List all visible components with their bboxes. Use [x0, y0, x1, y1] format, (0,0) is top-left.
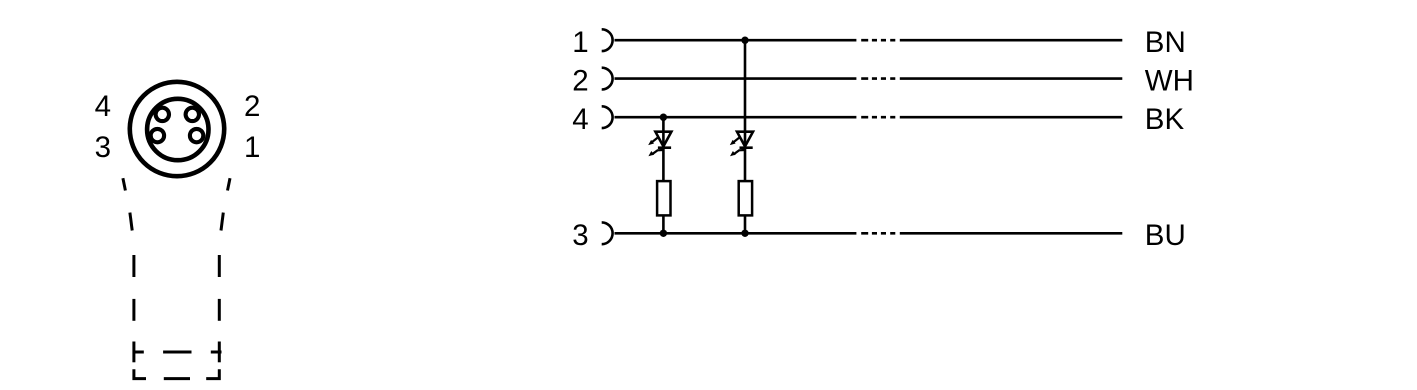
svg-text:3: 3 [95, 131, 111, 164]
svg-text:BK: BK [1145, 103, 1185, 136]
svg-text:1: 1 [572, 26, 588, 59]
svg-text:1: 1 [244, 131, 260, 164]
svg-text:2: 2 [244, 90, 260, 123]
svg-text:2: 2 [572, 65, 588, 98]
svg-text:BN: BN [1145, 26, 1186, 59]
svg-text:BU: BU [1145, 219, 1186, 252]
svg-text:3: 3 [572, 219, 588, 252]
svg-text:4: 4 [95, 90, 111, 123]
svg-text:WH: WH [1145, 65, 1194, 98]
svg-text:4: 4 [572, 103, 588, 136]
